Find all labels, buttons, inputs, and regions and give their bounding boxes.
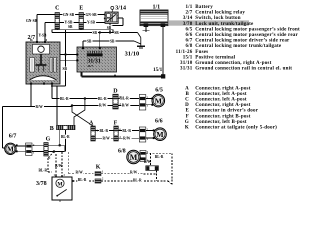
svg-text:BL-R: BL-R [39, 168, 48, 172]
svg-text:Connector in driver’s door: Connector in driver’s door [195, 109, 258, 114]
svg-text:SB: SB [107, 26, 112, 30]
svg-text:M: M [155, 96, 162, 105]
svg-text:Positive terminal: Positive terminal [195, 56, 235, 61]
svg-text:BL-R: BL-R [100, 129, 109, 133]
svg-text:3/78: 3/78 [183, 22, 193, 27]
svg-text:K: K [185, 126, 189, 131]
svg-text:G: G [46, 137, 51, 143]
svg-text:C: C [55, 6, 59, 12]
svg-text:Central locking motor passenge: Central locking motor passenger’s side f… [195, 27, 300, 32]
svg-text:3/14: 3/14 [115, 5, 126, 11]
svg-text:6/5: 6/5 [185, 27, 192, 32]
svg-text:R/W: R/W [99, 104, 107, 108]
svg-text:Central locking motor passenge: Central locking motor passenger’s side r… [195, 33, 298, 38]
svg-text:Central locking motor trunk/ta: Central locking motor trunk/tailgate [195, 44, 282, 49]
svg-text:GN-SB: GN-SB [26, 19, 38, 23]
svg-text:SB: SB [110, 39, 115, 43]
svg-text:R/W: R/W [55, 164, 63, 168]
svg-text:A: A [185, 86, 189, 91]
svg-text:6/6: 6/6 [185, 33, 192, 38]
svg-text:Central locking relay: Central locking relay [195, 11, 245, 16]
svg-text:BL-R: BL-R [155, 155, 164, 159]
svg-text:6/6: 6/6 [155, 119, 163, 125]
svg-text:E: E [79, 6, 83, 12]
svg-text:SB: SB [63, 67, 68, 71]
svg-text:SB: SB [114, 31, 119, 35]
svg-text:SB: SB [68, 25, 73, 29]
svg-text:R/W: R/W [76, 170, 84, 174]
svg-text:Connector, right A-post: Connector, right A-post [195, 86, 250, 91]
svg-text:B: B [185, 92, 189, 97]
svg-text:F: F [186, 114, 189, 119]
svg-text:6/8: 6/8 [185, 44, 192, 49]
svg-text:3/78: 3/78 [36, 181, 47, 187]
svg-text:BL-R: BL-R [120, 97, 129, 101]
svg-text:Ground connection, right A-pos: Ground connection, right A-post [195, 61, 271, 66]
svg-text:SB: SB [93, 31, 98, 35]
svg-text:Connector at tailgate (only 5-: Connector at tailgate (only 5-door) [195, 126, 277, 131]
svg-text:R/W: R/W [122, 104, 130, 108]
svg-text:Switch, lock button: Switch, lock button [195, 16, 240, 21]
svg-text:Connector, right B-post: Connector, right B-post [195, 114, 250, 119]
svg-text:Y-SB: Y-SB [87, 21, 95, 25]
svg-text:R/W: R/W [103, 137, 111, 141]
svg-text:M: M [130, 153, 138, 162]
svg-text:M: M [156, 130, 163, 139]
svg-text:R/W: R/W [36, 105, 44, 109]
svg-text:1/1: 1/1 [185, 5, 192, 10]
svg-text:BL-R: BL-R [98, 97, 107, 101]
svg-text:6/8: 6/8 [118, 149, 126, 155]
svg-text:BL-R: BL-R [60, 97, 69, 101]
svg-text:Connector, left A-post: Connector, left A-post [195, 98, 247, 103]
svg-text:R/W: R/W [130, 170, 138, 174]
svg-text:Lock unit, trunk/tailgate: Lock unit, trunk/tailgate [195, 22, 254, 27]
svg-text:BL-R: BL-R [133, 178, 142, 182]
svg-text:M: M [7, 145, 14, 153]
svg-text:A: A [89, 120, 94, 126]
svg-text:SB: SB [87, 39, 92, 43]
svg-text:Y-SB: Y-SB [39, 34, 47, 38]
svg-text:BL-R: BL-R [61, 135, 70, 139]
svg-text:D: D [113, 89, 118, 95]
svg-text:6/5: 6/5 [155, 88, 163, 94]
svg-text:11/1-26: 11/1-26 [176, 50, 193, 55]
svg-text:6/7: 6/7 [9, 134, 17, 140]
svg-text:Y-SB: Y-SB [65, 21, 73, 25]
svg-text:BL-R: BL-R [78, 178, 87, 182]
svg-text:Connector, left A-post: Connector, left A-post [195, 92, 247, 97]
svg-text:E: E [185, 109, 189, 114]
svg-text:11/7: 11/7 [88, 64, 94, 68]
svg-text:M: M [57, 181, 63, 187]
svg-text:B: B [50, 126, 54, 132]
svg-text:Ground connection rail in cent: Ground connection rail in central el. un… [195, 67, 292, 72]
svg-text:G: G [185, 120, 189, 125]
svg-text:31/31: 31/31 [180, 67, 193, 72]
svg-text:R/W: R/W [123, 137, 131, 141]
svg-text:BL-R: BL-R [122, 129, 131, 133]
svg-text:31/10: 31/10 [125, 51, 140, 58]
svg-text:C: C [185, 98, 189, 103]
svg-text:Connector, right A-post: Connector, right A-post [195, 103, 250, 108]
svg-text:Connector, left B-post: Connector, left B-post [195, 120, 247, 125]
svg-text:2/7: 2/7 [185, 11, 192, 16]
svg-text:31/10: 31/10 [180, 61, 193, 66]
svg-text:15/1: 15/1 [183, 56, 193, 61]
svg-text:GN-SB: GN-SB [63, 13, 75, 17]
svg-text:1/1: 1/1 [153, 4, 161, 10]
svg-text:D: D [185, 103, 189, 108]
svg-text:GN-SB: GN-SB [86, 13, 98, 17]
svg-text:15/1: 15/1 [153, 67, 163, 73]
svg-text:6/7: 6/7 [185, 39, 192, 44]
svg-text:Central locking motor driver’s: Central locking motor driver’s side rear [195, 39, 290, 44]
svg-text:F: F [114, 120, 118, 126]
svg-text:3/14: 3/14 [183, 16, 193, 21]
svg-text:Battery: Battery [195, 5, 213, 10]
svg-text:K: K [96, 165, 101, 171]
svg-text:Fuses: Fuses [195, 50, 208, 55]
